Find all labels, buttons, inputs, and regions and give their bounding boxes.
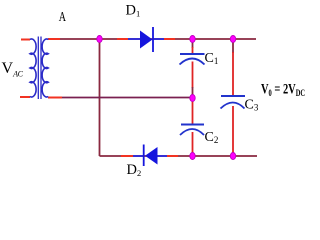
wire primary bottom stub [20, 96, 30, 98]
node at top of left vertical [97, 36, 102, 43]
wire bright segment right of D1 [164, 38, 175, 40]
capacitor C3 [221, 39, 246, 156]
node M middle [190, 95, 195, 102]
diode D1 [128, 27, 164, 52]
svg-text:C3: C3 [245, 98, 259, 113]
svg-text:C2: C2 [205, 130, 219, 145]
core [37, 37, 39, 100]
wire bright segment left of D1 [117, 38, 128, 40]
diode D2 [133, 145, 167, 167]
capacitor C1 [180, 39, 205, 98]
transformer T1 [30, 37, 48, 100]
capacitor C2 [180, 98, 204, 156]
wire primary top stub [21, 39, 30, 41]
wire bright segment left of D2 [121, 155, 133, 157]
wire secondary top stub [48, 38, 60, 40]
svg-text:D1: D1 [126, 3, 141, 19]
wire top rail [57, 38, 256, 40]
node C2 bottom [190, 153, 195, 160]
wire left vertical (node A to bottom rail) [99, 39, 101, 156]
wire middle (secondary bottom to node M) [48, 97, 193, 99]
wire bottom rail [100, 155, 258, 157]
svg-text:D2: D2 [127, 162, 142, 178]
node C3 top [230, 36, 235, 43]
label V0 = 2VDC [261, 81, 305, 98]
svg-text:VAC: VAC [2, 60, 24, 79]
svg-text:C1: C1 [205, 51, 219, 66]
node C1 top [190, 36, 195, 43]
label A [59, 8, 66, 24]
wire secondary bottom stub [48, 97, 62, 99]
wire bright segment right of D2 [167, 155, 178, 157]
secondary winding [42, 39, 48, 97]
svg-text:V0 = 2VDC: V0 = 2VDC [261, 81, 305, 98]
primary winding [30, 39, 36, 97]
node C3 bottom [230, 153, 235, 160]
svg-text:A: A [59, 8, 66, 24]
